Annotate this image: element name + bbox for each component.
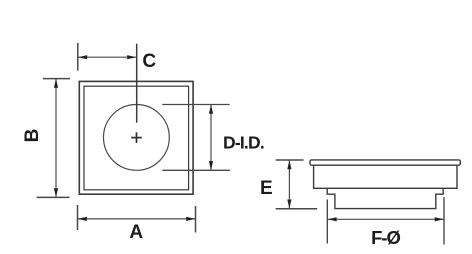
A dimension bbox=[78, 205, 196, 243]
B dimension bbox=[22, 79, 70, 198]
center mark bbox=[131, 132, 142, 143]
svg-text:C: C bbox=[142, 51, 156, 72]
side view: body bbox=[314, 165, 457, 188]
E dimension bbox=[260, 160, 317, 209]
outer square bbox=[79, 81, 193, 194]
C dimension bbox=[78, 43, 157, 72]
svg-text:D-I.D.: D-I.D. bbox=[223, 132, 264, 152]
F-diameter dimension bbox=[327, 197, 444, 248]
centerline bbox=[136, 44, 138, 123]
side view: lid rim bar bbox=[310, 160, 460, 165]
inner square bbox=[84, 86, 189, 190]
D-I.D. dimension bbox=[162, 105, 264, 171]
svg-text:A: A bbox=[129, 222, 143, 243]
svg-text:E: E bbox=[260, 178, 273, 199]
svg-text:F-Ø: F-Ø bbox=[371, 227, 400, 248]
side view: collar and spigot bbox=[327, 188, 443, 208]
circle D-I.D. bbox=[103, 104, 169, 170]
svg-text:B: B bbox=[22, 129, 43, 143]
